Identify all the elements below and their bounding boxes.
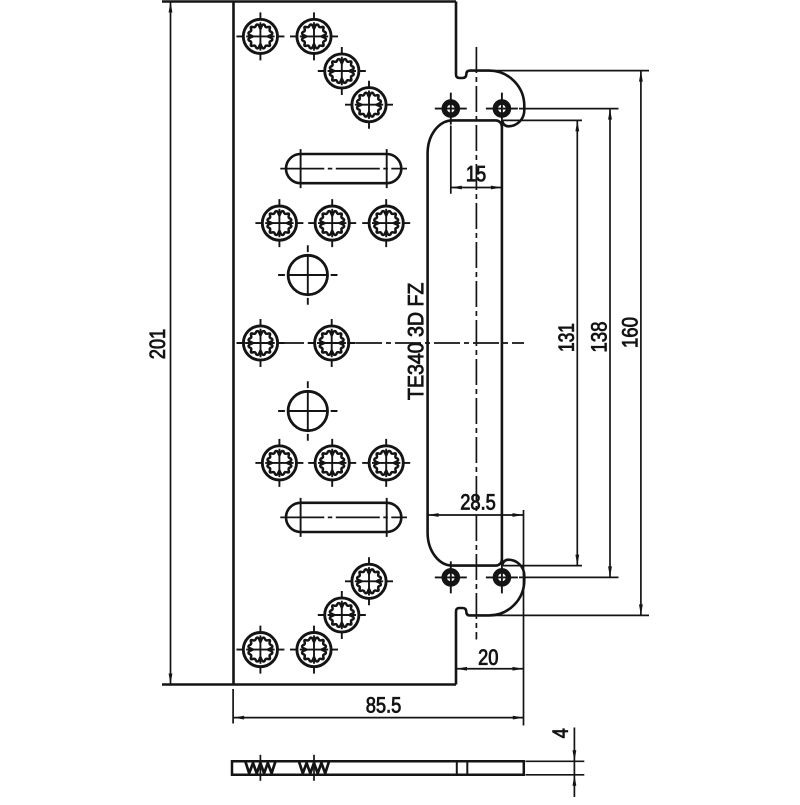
- dimension 201 line: [170, 2, 172, 685]
- dimension 160 label: [622, 318, 638, 347]
- screw hole B3: [318, 591, 366, 639]
- screw hole A1: [236, 12, 284, 60]
- dimension 28.5 line: [428, 510, 524, 726]
- screw hole B2: [290, 626, 338, 674]
- ear fixing hole bottom-left: [435, 561, 467, 593]
- side view plate strip: [232, 761, 524, 775]
- ear fixing hole top-right: [486, 93, 518, 125]
- ear fixing hole bottom-right: [486, 561, 518, 593]
- screw hole A3: [318, 47, 366, 95]
- side view countersink left: [245, 755, 275, 781]
- dimension 4 label: [553, 729, 568, 738]
- lower plain hole: [278, 381, 337, 440]
- side view countersink right: [299, 755, 329, 781]
- screw hole R5: [308, 439, 356, 487]
- plate top edge with 201 extension: [162, 0, 456, 2]
- screw hole R2: [308, 199, 356, 247]
- dimension 20 line: [456, 668, 524, 670]
- screw hole A4: [345, 81, 393, 129]
- screw hole R4: [255, 439, 303, 487]
- dimension 28.5 label: [461, 494, 495, 510]
- screw hole C2: [308, 319, 356, 367]
- dimension 85.5 label: [367, 697, 401, 713]
- bottom-right edge, relief notch, bottom ear lobe: [456, 560, 524, 685]
- side view step lines: [457, 761, 468, 775]
- product label TE340 3D FZ: [408, 283, 424, 399]
- dimension 131 label: [558, 324, 574, 351]
- screw hole B4: [345, 557, 393, 605]
- dimension 15 line: [451, 126, 502, 194]
- milled pocket recess outline: [428, 120, 502, 565]
- dimension 131 line: [503, 120, 582, 565]
- screw hole R3: [362, 199, 410, 247]
- plate outline left edge: [232, 2, 235, 685]
- dimension 15 label: [467, 166, 485, 181]
- dimension 138 line: [519, 109, 619, 578]
- upper plain hole: [278, 245, 337, 304]
- plate bottom edge with 201 extension: [162, 683, 456, 685]
- top-right edge, relief notch, top ear lobe: [456, 2, 524, 127]
- screw hole A2: [290, 12, 338, 60]
- dimension 201 label: [150, 330, 166, 359]
- right edge between ears (pocket wall): [501, 122, 504, 564]
- vertical centerline through ear holes: [475, 47, 477, 640]
- dimension 85.5 line: [233, 689, 524, 724]
- lower slotted hole: [286, 503, 401, 532]
- dimension 138 label: [591, 322, 607, 351]
- ear fixing hole top-left: [435, 93, 467, 125]
- horizontal centerline of plate: [239, 342, 524, 344]
- screw hole B1: [236, 626, 284, 674]
- screw hole R1: [255, 199, 303, 247]
- upper slotted hole: [286, 154, 401, 183]
- dimension 160 line: [467, 71, 649, 616]
- dimension 4 line: [526, 728, 585, 798]
- screw hole C1: [237, 319, 285, 367]
- screw hole R6: [362, 439, 410, 487]
- dimension 20 label: [479, 649, 498, 665]
